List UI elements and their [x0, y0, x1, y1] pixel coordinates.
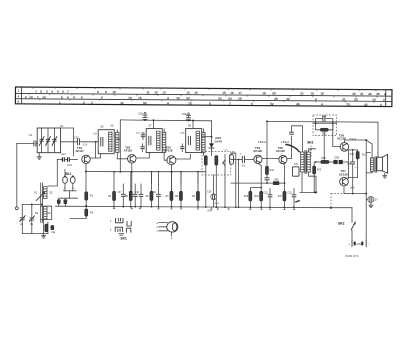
svg-text:GR2: GR2 [274, 179, 280, 182]
svg-text:4,5V: 4,5V [356, 243, 361, 246]
svg-text:75: 75 [346, 103, 350, 107]
loudspeaker [377, 157, 383, 171]
wire output mid rail [365, 140, 367, 194]
resistor R13 [265, 166, 268, 174]
capacitor C20 [142, 144, 144, 147]
wire stub mark [295, 201, 300, 203]
wire S9 right top [309, 172, 316, 176]
svg-text:5: 5 [57, 90, 59, 94]
svg-text:30: 30 [352, 92, 356, 96]
wire TS2 collector [136, 153, 149, 158]
svg-text:12: 12 [154, 90, 158, 94]
coil det sec [202, 132, 205, 152]
svg-text:AC128: AC128 [339, 172, 348, 176]
svg-text:16: 16 [230, 91, 234, 95]
resistor R4 [113, 172, 115, 192]
svg-text:C32: C32 [263, 191, 268, 194]
svg-text:30μF: 30μF [207, 210, 213, 212]
wire gang top to C13 column [61, 128, 74, 156]
wire antenna bottom [22, 233, 48, 235]
capacitor C36 [316, 119, 323, 124]
wire TS7 return [300, 191, 316, 193]
svg-text:12: 12 [120, 101, 124, 105]
wire battery right lead [365, 194, 367, 241]
svg-text:18: 18 [262, 91, 266, 95]
resistor R2 [43, 220, 45, 234]
svg-text:2: 2 [384, 92, 386, 96]
svg-text:19: 19 [310, 92, 314, 96]
svg-text:4: 4 [17, 95, 19, 99]
wire OPT top link [366, 152, 370, 154]
svg-text:C18: C18 [138, 113, 143, 116]
wire TS1 emitter [85, 164, 87, 192]
svg-text:AF117: AF117 [75, 149, 84, 153]
IF transformer S5/S6 [98, 130, 114, 154]
wire mid tap down [323, 132, 325, 162]
thermistor box dashed [313, 115, 337, 136]
svg-text:C25: C25 [180, 133, 185, 135]
svg-text:13: 13 [162, 90, 166, 94]
svg-text:R17: R17 [278, 195, 283, 198]
svg-text:SK2: SK2 [338, 222, 345, 226]
svg-text:S1: S1 [34, 190, 38, 194]
svg-text:SK1: SK1 [120, 237, 127, 241]
capacitor C14 [64, 159, 67, 161]
volume box dashed [202, 152, 231, 176]
capacitor C31 [292, 167, 299, 176]
svg-text:75: 75 [188, 101, 192, 105]
capacitor C26 [187, 113, 191, 118]
svg-text:15: 15 [222, 91, 226, 95]
linkage SK2 dashed [331, 192, 350, 208]
svg-text:AF116: AF116 [124, 149, 133, 153]
svg-text:C29: C29 [207, 192, 212, 194]
svg-text:45: 45 [296, 102, 300, 106]
svg-text:1mA: 1mA [350, 186, 355, 189]
svg-text:U1: U1 [60, 124, 64, 128]
svg-text:8: 8 [17, 100, 19, 104]
svg-text:C37: C37 [373, 200, 378, 202]
capacitor C32 [269, 189, 271, 195]
svg-text:C16: C16 [93, 133, 98, 135]
node bus-SK2 corner [330, 207, 332, 209]
svg-text:10: 10 [128, 96, 132, 100]
potentiometer P1 [224, 155, 226, 167]
battery B1 4.5V [352, 240, 366, 246]
svg-text:S2: S2 [49, 190, 53, 194]
capacitor C10 [140, 184, 142, 194]
svg-text:42: 42 [364, 103, 368, 107]
svg-text:SK1: SK1 [307, 140, 314, 144]
resistor R21 [316, 123, 321, 129]
trimmer C2 [21, 204, 23, 216]
wire thermistor rail [313, 122, 337, 124]
resistor R11 [204, 156, 207, 166]
svg-text:5: 5 [209, 102, 211, 106]
wire R15 top link [250, 188, 261, 192]
capacitor C4 [51, 225, 54, 229]
svg-text:0.85mA: 0.85mA [258, 141, 267, 144]
svg-text:2: 2 [25, 95, 27, 99]
svg-text:OA79: OA79 [215, 139, 223, 143]
wire det verticals [231, 153, 236, 207]
svg-text:14: 14 [372, 98, 376, 102]
resistor R16 [260, 191, 263, 201]
svg-text:C39: C39 [347, 163, 352, 165]
svg-text:17: 17 [238, 91, 242, 95]
svg-text:25: 25 [376, 92, 380, 96]
svg-text:20: 20 [272, 91, 276, 95]
svg-text:6: 6 [315, 97, 317, 101]
svg-text:1: 1 [18, 89, 20, 93]
svg-text:R22: R22 [317, 170, 322, 172]
svg-text:7: 7 [229, 102, 231, 106]
svg-text:6: 6 [251, 102, 253, 106]
wire antenna box [41, 206, 52, 219]
node osc join [95, 141, 97, 143]
svg-text:14: 14 [42, 95, 46, 99]
svg-text:4: 4 [321, 102, 323, 106]
ground antenna [42, 234, 46, 239]
driver transformer S9 [301, 152, 304, 172]
wire GR3 right [343, 151, 349, 179]
svg-text:C31: C31 [294, 164, 299, 166]
wire S8 to TS3 [164, 152, 167, 160]
svg-text:50μF: 50μF [214, 203, 220, 205]
wire IFT2 to rail [153, 120, 155, 128]
svg-text:2: 2 [383, 98, 385, 102]
wire TS3 emitter [170, 165, 172, 192]
wire TS5 collector to S9 [287, 126, 303, 159]
svg-text:28: 28 [274, 97, 278, 101]
svg-text:C13: C13 [61, 153, 66, 156]
wire TS1 collector [90, 154, 100, 158]
capacitor C30 [231, 159, 242, 161]
svg-text:R13: R13 [270, 169, 275, 172]
wire TS7 collector [344, 186, 366, 194]
coil S8 sec [162, 132, 165, 152]
wire AGC return [231, 182, 273, 184]
svg-text:7: 7 [67, 90, 69, 94]
wire rail drop R13 [266, 121, 268, 166]
capacitor C13 [57, 159, 62, 161]
output transformer S10 [370, 158, 373, 172]
svg-text:C36: C36 [322, 116, 327, 118]
svg-text:S8: S8 [188, 123, 192, 127]
svg-text:+: + [240, 152, 242, 156]
resistor R18 [316, 161, 321, 163]
resistor R22 [313, 166, 316, 174]
svg-text:24: 24 [228, 97, 232, 101]
IF transformer S9ift [186, 129, 202, 153]
svg-text:S3: S3 [35, 211, 39, 215]
svg-text:6: 6 [67, 95, 69, 99]
ground stubs on bus [113, 207, 295, 210]
svg-text:C26: C26 [182, 113, 187, 116]
svg-text:5: 5 [61, 95, 63, 99]
wire rail to output corner [337, 122, 379, 157]
svg-text:11: 11 [146, 90, 150, 94]
svg-text:1: 1 [37, 95, 39, 99]
resistor R7 [171, 172, 173, 192]
resistor R3 [85, 209, 88, 216]
wire S6 jog [117, 138, 120, 140]
svg-text:GR3: GR3 [334, 156, 340, 159]
svg-text:4: 4 [167, 101, 169, 105]
svg-text:1: 1 [35, 90, 37, 94]
svg-text:25: 25 [354, 97, 358, 101]
svg-text:6: 6 [81, 95, 83, 99]
resistor R12 [215, 156, 218, 166]
svg-text:30: 30 [286, 97, 290, 101]
capacitor C11 [158, 184, 160, 194]
svg-text:C1: C1 [29, 133, 33, 137]
resistor R17 [283, 191, 286, 201]
svg-text:C10: C10 [135, 191, 140, 194]
capacitor C1 [17, 143, 34, 145]
svg-text:C11: C11 [152, 191, 157, 194]
svg-text:R16: R16 [255, 195, 260, 198]
capacitor C33 [293, 189, 295, 195]
coil S3 [44, 207, 47, 220]
dial scale band [15, 87, 392, 107]
svg-text:S5: S5 [100, 125, 104, 129]
capacitor C8 [122, 184, 124, 194]
wire mid AGC rail [86, 170, 206, 172]
svg-text:22: 22 [368, 92, 372, 96]
capacitor C15 [61, 141, 78, 143]
svg-text:22: 22 [218, 96, 222, 100]
svg-text:AC126: AC126 [253, 149, 262, 153]
tuning gang U1 [37, 128, 60, 153]
svg-text:2: 2 [46, 90, 48, 94]
wire S8 AGC tap [202, 136, 212, 138]
svg-text:4: 4 [167, 96, 169, 100]
svg-text:4: 4 [51, 90, 53, 94]
svg-text:5: 5 [40, 90, 42, 94]
svg-text:31: 31 [342, 97, 346, 101]
svg-text:14: 14 [29, 95, 33, 99]
svg-text:C19: C19 [141, 133, 146, 135]
wire TS2 emitter [131, 163, 133, 191]
svg-text:R19: R19 [350, 153, 355, 156]
resistor R5 [130, 172, 132, 192]
capacitor C5 [57, 200, 60, 204]
svg-text:8: 8 [105, 90, 107, 94]
wire TS4-TS5 [262, 158, 279, 160]
resistor R9 [197, 172, 199, 192]
capacitor C9 [134, 184, 136, 194]
wire bottom bus [56, 206, 353, 208]
svg-text:R18: R18 [321, 157, 326, 160]
antenna ferrite rod [41, 183, 43, 223]
wire band sw riser [48, 160, 57, 187]
svg-text:20: 20 [186, 96, 190, 100]
capacitor C35 [290, 132, 294, 134]
wire TS3 collector [176, 154, 190, 159]
resistor R6 [151, 172, 153, 192]
resistor R8 [180, 172, 182, 192]
svg-text:21: 21 [300, 91, 304, 95]
svg-text:18: 18 [320, 92, 324, 96]
svg-text:21: 21 [360, 92, 364, 96]
wire rail A drop to detector [211, 121, 213, 143]
diode GR3 [329, 161, 333, 163]
IF transformer S7 [146, 129, 162, 153]
svg-text:AC126: AC126 [276, 149, 285, 153]
svg-text:18: 18 [176, 96, 180, 100]
svg-text:2: 2 [91, 101, 93, 105]
svg-text:0.04: 0.04 [83, 144, 88, 146]
svg-text:S7: S7 [148, 123, 152, 127]
svg-text:52: 52 [270, 102, 274, 106]
wire IFT3 to rail [192, 121, 194, 129]
svg-text:R15: R15 [244, 195, 249, 198]
wire TS6 collector [344, 140, 366, 143]
wire antenna top bus [22, 203, 42, 205]
svg-text:12: 12 [186, 91, 190, 95]
curved lead [285, 144, 299, 152]
capacitor C6 [64, 200, 67, 204]
svg-text:16: 16 [194, 91, 198, 95]
svg-text:AF116: AF116 [164, 149, 173, 153]
wire right tap down [333, 123, 341, 146]
svg-text:16: 16 [138, 96, 142, 100]
wire TS4 emitter [258, 163, 261, 191]
svg-text:C33: C33 [287, 191, 292, 194]
svg-text:8: 8 [101, 96, 103, 100]
capacitor C24 [181, 144, 183, 147]
svg-text:10: 10 [112, 90, 116, 94]
wire TS5 emitter [283, 164, 285, 192]
coil S6 sec [116, 132, 119, 152]
svg-text:2.85mA: 2.85mA [281, 141, 290, 144]
svg-text:9: 9 [97, 90, 99, 94]
capacitor C31b [266, 175, 268, 178]
svg-text:2: 2 [83, 101, 85, 105]
ground gang [38, 153, 40, 155]
pilot lamp pinview [167, 222, 178, 232]
svg-text:S4: S4 [47, 211, 51, 215]
svg-text:6: 6 [62, 90, 64, 94]
svg-text:26: 26 [238, 97, 242, 101]
wire top supply rail B [268, 121, 337, 123]
wire TS6 emitter to R19 [348, 149, 358, 151]
wire antenna left drop [16, 144, 18, 207]
svg-text:52: 52 [143, 101, 147, 105]
resistor R19 [356, 151, 359, 159]
svg-text:1%: 1% [202, 134, 205, 136]
capacitor C18 [143, 113, 147, 118]
capacitor C29 [213, 175, 215, 194]
wire top supply rail A [120, 119, 211, 122]
wire S6 to TS2 [117, 152, 127, 159]
svg-text:8181 674: 8181 674 [346, 254, 359, 258]
capacitor C17 [142, 133, 144, 135]
svg-text:1: 1 [59, 101, 61, 105]
svg-text:SK1: SK1 [65, 172, 72, 176]
wire S9 bottom left [301, 172, 303, 192]
resistor R1 [85, 192, 88, 200]
coil S1 [44, 187, 47, 199]
svg-text:4: 4 [73, 95, 75, 99]
svg-text:C14: C14 [67, 164, 72, 167]
svg-text:C15: C15 [74, 136, 79, 140]
capacitor C37 [366, 198, 368, 200]
capacitor C39 [352, 150, 354, 162]
resistor R15 [249, 191, 252, 201]
linkage SK1 dashed v [310, 146, 312, 159]
wire left rail drop [119, 120, 121, 172]
trimmer C3 [31, 204, 33, 217]
svg-text:4: 4 [380, 103, 382, 107]
wire R3 down [70, 216, 86, 218]
